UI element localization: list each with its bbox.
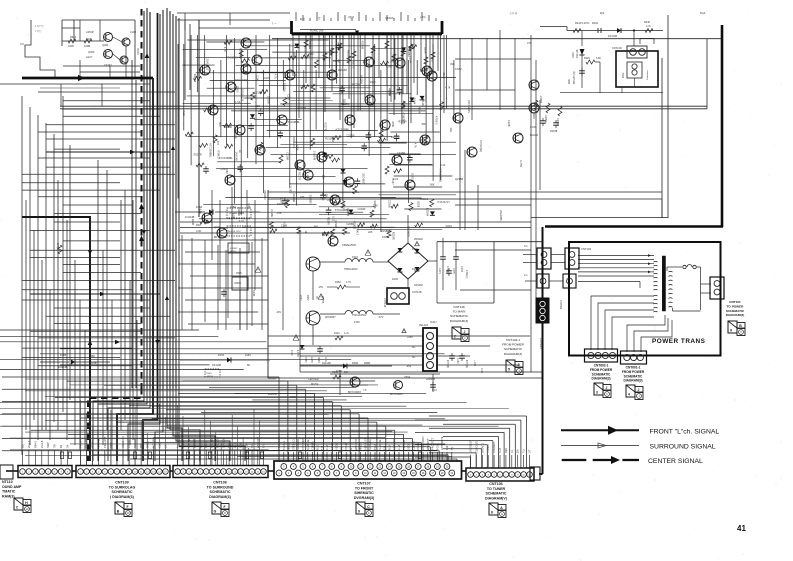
svg-text:D204: D204 [572, 52, 575, 58]
svg-text:8Q: 8Q [21, 445, 25, 448]
svg-text:DIAGRAM(3): DIAGRAM(3) [591, 377, 610, 381]
svg-text:4PSA56Y: 4PSA56Y [325, 316, 336, 319]
svg-text:D193: D193 [196, 205, 203, 209]
svg-text:KTC3198BL: KTC3198BL [439, 169, 443, 184]
svg-text:FROM POWER: FROM POWER [622, 370, 645, 374]
svg-text:R202M: R202M [283, 83, 287, 91]
svg-text:2SD880: 2SD880 [263, 190, 267, 200]
svg-text:Q100A: Q100A [385, 16, 394, 20]
svg-text:T.M: T.M [320, 446, 324, 450]
svg-text:2SD880B: 2SD880B [322, 232, 333, 235]
svg-text:Q182: Q182 [214, 226, 221, 229]
svg-text:C18L: C18L [480, 368, 482, 374]
svg-text:56K: 56K [430, 183, 435, 187]
svg-text:T808e/250V: T808e/250V [342, 243, 356, 247]
svg-text:2N5402: 2N5402 [414, 238, 423, 241]
svg-text:2CA-8: 2CA-8 [40, 440, 44, 448]
svg-text:D208: D208 [388, 90, 392, 97]
svg-text:PROLOG: PROLOG [216, 437, 220, 448]
svg-text:CNT(M)(T): CNT(M)(T) [301, 437, 305, 450]
svg-text:DA: DA [516, 449, 520, 453]
svg-text:D182: D182 [412, 248, 419, 251]
svg-text:+45V: +45V [407, 336, 413, 339]
svg-text:DEF: DEF [504, 447, 508, 453]
svg-text:SCHEMATIC: SCHEMATIC [450, 314, 469, 318]
svg-text:DATA: DATA [204, 441, 208, 448]
svg-text:-37V: -37V [378, 315, 384, 319]
svg-text:CL: CL [510, 449, 514, 453]
svg-text:100B: 100B [84, 44, 90, 48]
svg-text:R205R: R205R [544, 115, 547, 123]
svg-text:R19B: R19B [90, 361, 97, 365]
svg-text:CNT11B: CNT11B [412, 291, 422, 294]
svg-text:R86: R86 [90, 354, 95, 358]
svg-text:C-M: C-M [325, 445, 329, 450]
svg-text:NORMST: NORMST [210, 436, 214, 448]
svg-text:CNT108: CNT108 [213, 481, 226, 485]
svg-text:2: 2 [454, 335, 456, 339]
svg-text:Q303: Q303 [88, 50, 95, 54]
svg-text:-15V: -15V [318, 286, 323, 289]
svg-text:DVGRAM(3): DVGRAM(3) [354, 496, 375, 500]
svg-text:VERBEST: VERBEST [363, 437, 367, 450]
svg-text:FROM POWER: FROM POWER [590, 368, 613, 372]
svg-text:G: G [501, 512, 503, 516]
svg-text:CNT109: CNT109 [115, 481, 128, 485]
svg-text:37V: 37V [527, 41, 532, 45]
svg-text:KTC3198BL: KTC3198BL [286, 120, 301, 124]
svg-text:VD3: VD3 [239, 442, 243, 448]
svg-text:CNT21D: CNT21D [612, 47, 622, 50]
svg-text:R233B: R233B [550, 130, 558, 133]
svg-text:MODE: MODE [181, 440, 185, 448]
svg-text:STEREO: STEREO [291, 439, 295, 450]
svg-text:4-7k: 4-7k [344, 332, 349, 335]
svg-text:2208/58: 2208/58 [426, 378, 436, 381]
svg-text:252: 252 [20, 43, 25, 46]
svg-text:G: G [214, 510, 217, 514]
svg-text:1N5402: 1N5402 [381, 230, 390, 233]
svg-text:R229R: R229R [327, 217, 331, 225]
svg-text:C213R: C213R [371, 52, 374, 60]
svg-text:LR: LR [164, 445, 168, 448]
svg-text:100K: 100K [68, 44, 74, 48]
svg-text:R218M: R218M [341, 102, 349, 106]
svg-text:C175: C175 [452, 268, 455, 274]
svg-text:ST: ST [528, 449, 532, 453]
svg-text:D183: D183 [392, 278, 399, 281]
svg-text:C17B: C17B [460, 266, 463, 272]
svg-text:C219R: C219R [358, 208, 366, 211]
svg-text:R229R: R229R [391, 232, 394, 240]
svg-text:R227R: R227R [324, 123, 328, 131]
svg-text:2SC4803: 2SC4803 [361, 173, 365, 184]
svg-text:ING-ON 15CC: ING-ON 15CC [228, 231, 241, 233]
svg-text:SCHEMATIC: SCHEMATIC [726, 309, 745, 313]
svg-text:D23R: D23R [424, 47, 427, 54]
svg-text:R231B: R231B [420, 68, 428, 72]
svg-text:DIAGRAM(3): DIAGRAM(3) [726, 313, 745, 317]
svg-text:R227R: R227R [297, 172, 301, 180]
svg-text:C203: C203 [264, 76, 271, 80]
svg-text:330: 330 [450, 62, 455, 66]
svg-text:2SC4803: 2SC4803 [407, 226, 411, 237]
svg-text:1N4148: 1N4148 [312, 151, 316, 161]
svg-text:C10R: C10R [130, 31, 136, 34]
svg-text:PROTECT: PROTECT [431, 437, 435, 450]
svg-text:1N414B: 1N414B [322, 362, 331, 365]
svg-text:REG3R: REG3R [347, 50, 350, 59]
svg-text:WRCOST: WRCOST [426, 438, 430, 450]
svg-text:CNT104-1: CNT104-1 [506, 338, 521, 342]
svg-text:R227R: R227R [194, 152, 202, 156]
svg-text:C203: C203 [220, 167, 227, 171]
svg-text:560: 560 [323, 57, 326, 62]
svg-text:W3: W3 [139, 444, 143, 448]
svg-text:IC504: IC504 [234, 281, 241, 285]
svg-text:AC: AC [412, 356, 416, 359]
svg-text:33K: 33K [449, 128, 453, 133]
svg-text:AC: AC [412, 346, 416, 349]
svg-text:TRFS: TRFS [206, 373, 212, 375]
svg-text:2CA-3: 2CA-3 [27, 440, 31, 448]
svg-text:D181: D181 [382, 236, 389, 239]
svg-text:-16V: -16V [276, 311, 281, 314]
svg-text:F103: F103 [354, 321, 360, 324]
svg-text:4.7k: 4.7k [402, 119, 406, 125]
svg-text:VCH: VCH [250, 442, 254, 448]
svg-text:100K: 100K [277, 203, 283, 206]
svg-text:T50mA/250V: T50mA/250V [352, 314, 367, 317]
svg-text:C205R: C205R [346, 133, 354, 137]
svg-text:PCM: PCM [373, 444, 377, 450]
svg-text:R240L 20k: R240L 20k [310, 29, 324, 33]
svg-text:MUTE: MUTE [230, 251, 236, 253]
svg-text:)|*: )|* [318, 17, 320, 20]
svg-text:SURROUND SIGNAL: SURROUND SIGNAL [650, 444, 716, 451]
svg-text:PRO3: PRO3 [136, 48, 139, 55]
svg-text:R239R: R239R [308, 41, 312, 49]
svg-text:PRO9Y: PRO9Y [79, 439, 83, 448]
svg-text:J: J [464, 330, 466, 334]
svg-text:6.8K: 6.8K [596, 57, 601, 60]
svg-text:VDD2: VDD2 [335, 443, 339, 450]
svg-text:ROOUT: ROOUT [133, 438, 137, 448]
svg-text:E17A: E17A [290, 350, 293, 356]
svg-text:56K: 56K [256, 104, 261, 108]
svg-text:4.7k: 4.7k [413, 143, 417, 149]
svg-text:A15JP: A15JP [86, 30, 94, 34]
svg-text:560: 560 [314, 225, 319, 229]
svg-text:56K: 56K [422, 122, 427, 126]
svg-text:F.M: F.M [383, 446, 387, 450]
svg-text:R2170: R2170 [352, 61, 355, 69]
svg-text:DIAGRAM(V): DIAGRAM(V) [485, 496, 508, 500]
svg-text:100K: 100K [391, 121, 395, 127]
svg-text:470/6.3: 470/6.3 [435, 116, 439, 125]
svg-text:POWER TRANS: POWER TRANS [652, 338, 706, 345]
svg-text:9: 9 [358, 510, 360, 514]
svg-text:2SA1015Y: 2SA1015Y [206, 58, 210, 71]
svg-text:CLK: CLK [198, 443, 202, 448]
svg-text:7805: 7805 [236, 272, 242, 275]
svg-text:IC317: IC317 [430, 321, 437, 324]
svg-text:4.7K: 4.7K [346, 281, 351, 284]
svg-text:10uF: 10uF [442, 72, 446, 78]
svg-text:V20L: V20L [109, 441, 113, 448]
svg-text:0.047: 0.047 [386, 65, 393, 69]
svg-text:1N414B: 1N414B [185, 215, 195, 219]
svg-text:D202: D202 [592, 22, 599, 25]
svg-text:SCHEMATIC: SCHEMATIC [209, 490, 230, 494]
svg-text:CNT101: CNT101 [729, 300, 741, 304]
svg-text:LR/700(3)Y: LR/700(3)Y [469, 439, 473, 453]
svg-text:2SA1015Y: 2SA1015Y [241, 89, 245, 102]
svg-text:-0.98M: -0.98M [539, 95, 543, 103]
svg-text:4: 4 [628, 393, 630, 397]
svg-text:C182: C182 [456, 358, 458, 364]
svg-text:1N4148: 1N4148 [235, 152, 239, 162]
svg-text:CNT103: CNT103 [581, 247, 592, 251]
svg-text:0.047: 0.047 [530, 126, 537, 129]
svg-text:W7(3): W7(3) [56, 243, 60, 250]
svg-text:VOLS: VOLS [121, 441, 125, 448]
svg-text:S9W: S9W [46, 442, 50, 448]
svg-text:2SD880: 2SD880 [407, 47, 411, 57]
svg-text:D203: D203 [411, 173, 415, 180]
svg-text:B2: B2 [59, 444, 63, 448]
svg-text:1N5402: 1N5402 [414, 284, 423, 287]
svg-text:HYP INPUT: HYP INPUT [421, 436, 425, 450]
svg-text:S-MODE: S-MODE [306, 439, 310, 450]
svg-text:(-) | (-): (-) | (-) [510, 11, 517, 15]
svg-text:D193: D193 [218, 354, 225, 357]
svg-text:VDH: VDH [244, 442, 248, 448]
svg-text:4731(4): 4731(4) [446, 360, 448, 368]
svg-text:2SD880: 2SD880 [309, 195, 312, 205]
svg-text:D203: D203 [446, 224, 453, 228]
svg-text:R235R: R235R [304, 46, 307, 54]
svg-text:STEREO: STEREO [492, 442, 496, 453]
svg-text:4.7/50: 4.7/50 [519, 160, 523, 168]
svg-text:P50: P50 [431, 58, 434, 63]
svg-text:|~T|1: |~T|1 [420, 16, 426, 19]
svg-text:DIAGRAM(3): DIAGRAM(3) [504, 352, 522, 356]
svg-text:DIAGRAM(3): DIAGRAM(3) [623, 379, 642, 383]
svg-text:R180: R180 [299, 295, 301, 301]
svg-text:NORMAL: NORMAL [296, 438, 300, 450]
svg-text:22K: 22K [322, 175, 326, 180]
svg-text:1N414B: 1N414B [58, 365, 68, 369]
svg-text:MEMV: MEMV [91, 440, 95, 448]
svg-text:KTA1271Y: KTA1271Y [438, 200, 451, 204]
svg-text:C214Y: C214Y [409, 56, 412, 64]
svg-text:DATA(T): DATA(T) [480, 443, 484, 453]
svg-text:#)|2: #)|2 [600, 12, 605, 15]
svg-text:R218M: R218M [193, 74, 197, 82]
svg-text:6: 6 [491, 511, 493, 515]
svg-text:0.01: 0.01 [391, 60, 397, 64]
svg-text:FRONT: FRONT [230, 248, 238, 250]
svg-text:1N414B: 1N414B [608, 35, 617, 38]
svg-text:TO MAIN: TO MAIN [453, 310, 466, 314]
svg-text:-45V: -45V [406, 365, 412, 368]
svg-text:WRCO97: WRCO97 [256, 436, 260, 448]
svg-text:1.5K: 1.5K [182, 61, 186, 67]
svg-text:R240: R240 [644, 21, 651, 24]
svg-text:D180: D180 [304, 357, 306, 363]
svg-text:Pwhasner: Pwhasner [646, 70, 649, 80]
svg-text:R26B: R26B [317, 357, 319, 363]
svg-text:22K: 22K [368, 231, 373, 234]
svg-text:8K: 8K [247, 364, 250, 367]
svg-text:) —: ) — [272, 21, 277, 25]
svg-text:4731(4): 4731(4) [465, 270, 468, 278]
svg-text:3.3K: 3.3K [196, 229, 202, 233]
svg-text:S4: S4 [66, 444, 70, 448]
svg-text:1.5K: 1.5K [235, 100, 241, 104]
svg-text:FROM POWER: FROM POWER [502, 343, 524, 347]
svg-text:C22B: C22B [507, 120, 511, 127]
svg-text:S-M: S-M [227, 443, 231, 448]
svg-text:1.5K: 1.5K [373, 205, 378, 208]
svg-text:+.30B: +.30B [473, 360, 475, 367]
svg-text:C205R: C205R [387, 200, 390, 208]
svg-text:KTC3209Y: KTC3209Y [235, 78, 248, 82]
svg-text:CNT602-1: CNT602-1 [594, 364, 609, 368]
svg-text:CLK: CLK [157, 443, 161, 448]
svg-text:10uF: 10uF [370, 80, 376, 84]
svg-text:PRE-OUT: PRE-OUT [103, 436, 107, 448]
svg-text:7W: 7W [53, 444, 57, 448]
svg-text:6.8K: 6.8K [308, 52, 314, 56]
svg-text:R236R: R236R [330, 48, 333, 56]
svg-text:2.2K: 2.2K [255, 75, 259, 81]
svg-text:NORMAL: NORMAL [368, 438, 372, 450]
svg-text:J: J [606, 386, 608, 390]
svg-text:CNT118: CNT118 [383, 298, 386, 308]
svg-text:T808e/250V: T808e/250V [344, 268, 358, 271]
svg-text:CLK(A): CLK(A) [411, 441, 415, 450]
svg-text:S-M: S-M [498, 448, 502, 453]
svg-text:C205R: C205R [346, 223, 354, 226]
svg-text:TBCOST: TBCOST [402, 439, 406, 450]
svg-text:C203: C203 [287, 94, 291, 101]
svg-text:2SA1885: 2SA1885 [499, 210, 503, 221]
svg-text:HYP-MUTE: HYP-MUTE [440, 436, 444, 450]
svg-text:3: 3 [596, 391, 598, 395]
svg-text:CNT118: CNT118 [453, 305, 465, 309]
svg-text:J: J [638, 388, 640, 392]
svg-text:U|}|2|: U|}|2| [348, 16, 354, 19]
svg-text:1.5K: 1.5K [276, 212, 281, 215]
svg-text:0.047: 0.047 [292, 141, 296, 148]
svg-text:Q304: Q304 [102, 43, 109, 47]
svg-text:CNT107: CNT107 [357, 482, 370, 486]
svg-text:C314Y: C314Y [104, 63, 112, 67]
svg-text:SCHEMATIC: SCHEMATIC [624, 374, 643, 378]
svg-text:R398: R398 [332, 371, 339, 374]
svg-text:R182: R182 [335, 281, 341, 284]
svg-text:CLOCK(T): CLOCK(T) [474, 441, 478, 453]
svg-text:DATA: DATA [145, 441, 149, 448]
svg-text:0.22: 0.22 [440, 163, 446, 167]
svg-text:TUNES: TUNES [486, 444, 490, 453]
svg-text:C218R: C218R [397, 151, 405, 155]
svg-text:2SC31B2N: 2SC31B2N [467, 100, 471, 113]
svg-text:CNT106: CNT106 [489, 482, 502, 486]
svg-text:R08B: R08B [364, 362, 370, 365]
svg-text:S-MODE: S-MODE [221, 437, 225, 448]
svg-text:SCHEMATIC: SCHEMATIC [592, 372, 611, 376]
svg-text:930M: 930M [352, 362, 358, 365]
svg-text:PROLOGIC: PROLOGIC [277, 436, 281, 450]
svg-text:B.M: B.M [387, 445, 391, 450]
svg-text:C218R: C218R [270, 209, 274, 217]
svg-text:POWER-ON: POWER-ON [229, 213, 242, 215]
svg-text:NA3Y(3: NA3Y(3 [97, 438, 101, 448]
svg-text:C203: C203 [333, 59, 340, 63]
svg-text:R227R: R227R [352, 82, 360, 86]
svg-text:R202M: R202M [298, 106, 306, 110]
svg-text:VCH3: VCH3 [344, 443, 348, 450]
svg-text:C219R: C219R [286, 152, 290, 160]
svg-text:F: F [223, 505, 225, 509]
svg-text:4713(4): 4713(4) [446, 266, 449, 274]
svg-text:NORMAL: NORMAL [187, 436, 191, 448]
svg-text:MUTE: MUTE [311, 382, 319, 386]
svg-text:248V: 248V [306, 295, 308, 301]
svg-text:1N4148: 1N4148 [338, 68, 348, 72]
svg-text:821GM: 821GM [530, 134, 538, 137]
svg-text:D208: D208 [191, 219, 195, 226]
svg-text:R229R: R229R [292, 194, 295, 202]
svg-text:R212R: R212R [325, 137, 333, 141]
svg-text:DIAGRAM(3): DIAGRAM(3) [209, 495, 231, 499]
svg-text:CA-LS3: CA-LS3 [85, 438, 89, 448]
svg-text:FRONT "L"ch. SIGNAL: FRONT "L"ch. SIGNAL [650, 429, 720, 436]
svg-text:OUND AMP: OUND AMP [2, 485, 22, 489]
svg-text:1.5K: 1.5K [280, 198, 283, 203]
svg-text:F.M: F.M [445, 446, 449, 450]
svg-text:P84-3: P84-3 [33, 441, 37, 448]
svg-text:PCM: PCM [435, 444, 439, 450]
svg-text:R191: R191 [334, 332, 340, 335]
svg-text:560: 560 [218, 122, 222, 127]
svg-text:MODE: MODE [287, 442, 291, 450]
svg-text:S-MODE: S-MODE [378, 439, 382, 450]
svg-text:C209R: C209R [556, 118, 559, 126]
svg-text:9: 9 [730, 329, 732, 333]
svg-text:MODE: MODE [359, 442, 363, 450]
svg-text:4.7k: 4.7k [445, 86, 451, 90]
svg-text:#)|Q: #)|Q [300, 18, 305, 21]
svg-text:2-1: 2-1 [524, 274, 528, 277]
svg-text:B.M: B.M [315, 445, 319, 450]
svg-text:P.M: P.M [262, 444, 266, 448]
svg-text:6.8K: 6.8K [198, 209, 202, 215]
svg-text:100K: 100K [296, 145, 300, 151]
svg-text:1.1(7.7): 1.1(7.7) [35, 25, 43, 28]
svg-text:KTC3209Y: KTC3209Y [226, 55, 239, 59]
svg-text:VCH3: VCH3 [416, 443, 420, 450]
svg-text:4.7k: 4.7k [274, 74, 278, 80]
svg-text:R218M: R218M [425, 208, 428, 216]
svg-text:L:(7)]: L:(7)] [35, 30, 41, 33]
svg-text:0.01: 0.01 [239, 219, 245, 223]
svg-text:TO FRONT: TO FRONT [355, 486, 374, 490]
svg-text:CNT322: CNT322 [559, 300, 562, 310]
